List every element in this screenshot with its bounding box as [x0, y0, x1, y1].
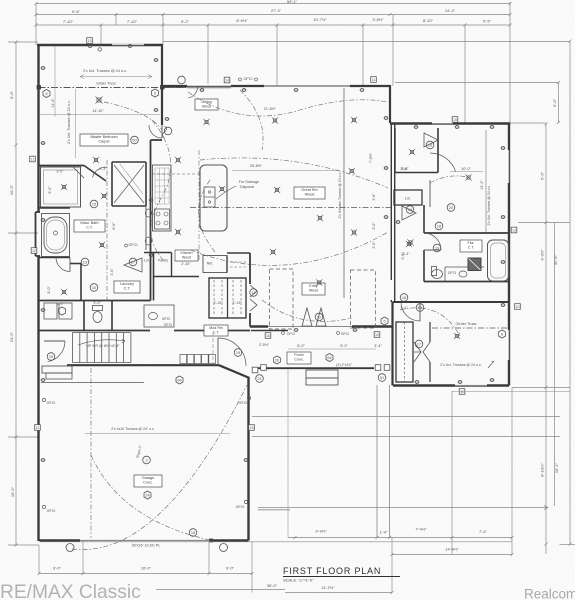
dimension row 3 top y=25 — [36, 24, 510, 26]
long extension line y=416.5 — [252, 416, 560, 418]
right dimension line x=554.5 (32'-6) — [554, 223, 556, 507]
svg-text:14'-10": 14'-10" — [92, 109, 104, 113]
svg-text:2'x Selador Trusses @ 24 o.c.: 2'x Selador Trusses @ 24 o.c. — [338, 172, 342, 219]
svg-text:15: 15 — [375, 333, 379, 337]
svg-text:Ref.: Ref. — [207, 262, 213, 266]
porch label box — [287, 352, 311, 364]
svg-text:GFCI: GFCI — [239, 401, 248, 405]
svg-text:2'-10": 2'-10" — [214, 301, 224, 305]
svg-text:7'-5½": 7'-5½" — [369, 152, 373, 163]
long extension line y=436.5 — [252, 436, 560, 438]
left dim tick extensions — [8, 41, 38, 43]
circle 20 bedroom3 — [416, 304, 424, 312]
garage corner diagonal wall — [219, 365, 250, 378]
svg-text:13: 13 — [83, 260, 87, 264]
svg-text:7'-10": 7'-10" — [63, 19, 74, 24]
window box 11 left wall upper — [30, 156, 36, 162]
svg-text:11: 11 — [252, 291, 256, 295]
dim 36-0 row y=589.5 — [156, 589, 285, 591]
svg-text:14'-8½": 14'-8½" — [445, 547, 459, 552]
svg-text:6: 6 — [45, 92, 47, 96]
mud room south wall (y=365.2) — [67, 364, 219, 366]
svg-text:GFCI: GFCI — [162, 317, 171, 321]
svg-text:2'x Ucl. Trusses @ 24 o.c.: 2'x Ucl. Trusses @ 24 o.c. — [67, 100, 71, 144]
circle 20 bedroom2 — [447, 204, 455, 212]
window box 11 bedroom3 south — [459, 389, 465, 395]
wall: bath2 west (x=424) — [423, 205, 425, 233]
girder hexagon left — [43, 90, 50, 98]
wiring arc great room big — [200, 158, 388, 188]
garage door opener circles — [66, 544, 74, 552]
svg-text:GFCI: GFCI — [236, 505, 245, 509]
garage bottom extension — [40, 541, 513, 543]
wall: dining/kitchen north (y=86) — [163, 85, 264, 87]
laundry partitions — [83, 301, 85, 331]
right dimension line x=546 — [545, 124, 547, 554]
bedroom3 bifold doors — [414, 342, 421, 362]
svg-text:Wood: Wood — [182, 256, 191, 260]
window box 15 garage east wall — [249, 425, 255, 431]
svg-text:2'x 4x10 Trusses @ 24" o.c.: 2'x 4x10 Trusses @ 24" o.c. — [111, 427, 154, 431]
wall: garage south (y=540.5) — [40, 539, 81, 541]
svg-text:14'-6": 14'-6" — [51, 98, 55, 108]
door: entry closet bifold — [250, 285, 257, 311]
svg-text:13: 13 — [512, 228, 516, 232]
hall closets pair — [209, 278, 246, 318]
svg-text:27'-3": 27'-3" — [271, 8, 282, 13]
svg-text:Porch: Porch — [294, 353, 303, 357]
circle 50 mb — [131, 136, 139, 144]
wiring arc great oval — [199, 180, 215, 252]
svg-text:64: 64 — [177, 379, 181, 383]
wall: left exterior (x=38.5) — [37, 44, 39, 212]
svg-text:6'-0": 6'-0" — [112, 222, 116, 230]
circle 19 bath2 — [433, 244, 441, 252]
svg-text:3'-0": 3'-0" — [47, 286, 51, 294]
svg-text:10'-0": 10'-0" — [461, 167, 471, 171]
svg-text:15: 15 — [250, 426, 254, 430]
svg-text:Wood: Wood — [305, 193, 315, 197]
wall: hall north (y=276.5) — [154, 276, 200, 278]
svg-text:17: 17 — [417, 342, 421, 346]
ref dashed — [230, 261, 248, 263]
dim 11-2 row y=592.5 — [285, 592, 392, 594]
bedroom2 closet light — [410, 150, 413, 153]
great room girder dashdot — [190, 207, 391, 209]
svg-text:9'-6": 9'-6" — [9, 90, 14, 99]
bedroom2 light — [467, 176, 470, 179]
door: linen wedge — [402, 206, 416, 220]
wall: toilet room east (x=81) — [80, 264, 82, 301]
svg-text:GFCI: GFCI — [47, 401, 56, 405]
svg-text:UP 9 R @ 8⅜"=6'-4": UP 9 R @ 8⅜"=6'-4" — [86, 344, 120, 348]
mud room label box — [204, 325, 228, 336]
svg-text:7'-4": 7'-4" — [479, 529, 488, 534]
bath2 vanity — [444, 267, 446, 282]
great room label box — [294, 187, 325, 199]
svg-text:6: 6 — [383, 320, 385, 324]
svg-text:GFCI: GFCI — [164, 323, 173, 327]
wall: master bedroom east (x=162) — [161, 44, 163, 125]
mb wall outlet top — [98, 48, 101, 51]
entry soffit dashed rect east — [351, 270, 376, 328]
svg-text:Girder Truss: Girder Truss — [456, 322, 477, 326]
recessed light symbols — [205, 120, 208, 123]
wiring arc bed2 — [430, 176, 470, 183]
wall: entry west (x=250) — [249, 253, 251, 284]
svg-text:24: 24 — [145, 494, 149, 498]
bath2 toilet — [432, 270, 443, 279]
door: laundry from hall wedge — [124, 258, 142, 272]
svg-text:19: 19 — [49, 355, 53, 359]
svg-text:61: 61 — [380, 376, 384, 380]
girder junction squares — [37, 86, 41, 90]
long extension line y=507.5 — [258, 507, 548, 509]
svg-text:2'x Ucl. Trusses @ 24 o.c.: 2'x Ucl. Trusses @ 24 o.c. — [440, 363, 482, 367]
bedroom2 closet door wedge — [424, 133, 438, 147]
wiring arc nook-kitchen — [240, 90, 263, 150]
wall: shower south (y=208) — [39, 207, 71, 209]
svg-text:3'-5½": 3'-5½" — [259, 343, 270, 347]
great room truss line — [343, 88, 345, 298]
wall: bedroom3 south exterior (y=385.5) — [393, 384, 509, 386]
dim row y=554.5 — [392, 554, 512, 556]
pantry walls — [153, 253, 155, 301]
svg-text:16'-1": 16'-1" — [554, 462, 559, 473]
svg-text:11: 11 — [31, 157, 35, 161]
wiring arc dining — [188, 92, 388, 116]
island sink — [204, 187, 215, 207]
svg-text:11'-2½": 11'-2½" — [321, 585, 335, 590]
bedroom2 closet — [394, 128, 396, 173]
master tub deck — [42, 214, 70, 257]
svg-text:For Garbage: For Garbage — [239, 180, 259, 184]
kitchen counter hatch — [155, 167, 169, 169]
svg-text:16: 16 — [408, 208, 412, 212]
svg-text:36'-0": 36'-0" — [267, 583, 278, 588]
svg-text:Entry: Entry — [309, 284, 318, 288]
svg-text:10'-7½": 10'-7½" — [313, 17, 327, 22]
garage header line — [41, 382, 144, 384]
wall: shower north / mb south (y=165.5) — [39, 165, 85, 167]
mast bath label box — [74, 220, 105, 232]
svg-text:3'-8½": 3'-8½" — [372, 17, 384, 22]
svg-text:9'-0": 9'-0" — [53, 566, 62, 571]
mb ceiling light — [97, 98, 101, 102]
svg-text:10'-3": 10'-3" — [9, 184, 14, 195]
svg-text:3'-6": 3'-6" — [110, 268, 114, 276]
svg-text:21'-8½": 21'-8½" — [264, 107, 277, 111]
bath2 light — [407, 242, 410, 245]
door stub + swing at dining opening — [163, 85, 187, 87]
svg-text:6: 6 — [501, 333, 503, 337]
bedroom3 closet — [396, 322, 413, 382]
window box 13 on top wall — [87, 38, 93, 44]
kitchen label box — [175, 250, 198, 261]
right dim tick extensions — [163, 41, 570, 43]
laundry label box — [114, 281, 140, 293]
svg-text:C.T.: C.T. — [468, 246, 475, 250]
wiring arc garage big — [72, 385, 247, 550]
mud sink counter — [144, 305, 174, 327]
mb door squiggle — [163, 126, 167, 138]
wall: bedroom3 west (x=392.5) — [391, 302, 393, 386]
circle 10 near laundry — [90, 284, 98, 292]
mb truss arrow line — [80, 76, 152, 78]
wall: east exterior (x=509) — [508, 124, 510, 386]
meter boxes porch — [375, 365, 381, 371]
svg-text:11: 11 — [36, 426, 40, 430]
svg-text:18: 18 — [191, 531, 195, 535]
door: hall to bedroom3 — [401, 303, 420, 321]
svg-text:3'-6": 3'-6" — [372, 193, 376, 201]
svg-text:Pantry: Pantry — [158, 259, 168, 263]
garage door line — [80, 540, 211, 542]
wiring arc kitchen S — [151, 120, 171, 262]
svg-text:GFCI: GFCI — [128, 243, 137, 247]
right dimension line x=558.5 (9'-0) — [558, 83, 560, 123]
wiring vertical garage center — [90, 368, 92, 538]
wall: master bedroom top exterior (y=45) — [37, 44, 163, 46]
svg-text:3'-6": 3'-6" — [400, 167, 408, 171]
svg-text:26: 26 — [275, 359, 279, 363]
window box 11 on nook wall — [371, 77, 377, 83]
svg-text:GFCI: GFCI — [47, 509, 56, 513]
svg-text:Wood: Wood — [202, 105, 211, 109]
svg-text:19'-2": 19'-2" — [10, 486, 15, 497]
door: bedroom2 entry arc — [430, 153, 456, 172]
svg-text:Lin.: Lin. — [405, 197, 411, 201]
svg-text:20: 20 — [449, 206, 453, 210]
svg-text:8'-10⅛": 8'-10⅛" — [540, 463, 545, 477]
svg-text:Mast. Bath: Mast. Bath — [80, 221, 98, 225]
mb label box — [80, 134, 128, 146]
top dim extension lines — [35, 4, 37, 46]
kitchen counter west — [153, 165, 172, 231]
wiring vertical mud — [212, 332, 214, 364]
wall: bath2 south (y=281.5) — [424, 281, 509, 283]
svg-text:Wood: Wood — [309, 289, 318, 293]
bedroom3 girder — [432, 327, 508, 329]
svg-text:Carpet: Carpet — [98, 140, 109, 144]
svg-text:16'-0": 16'-0" — [141, 566, 152, 571]
garage label box — [134, 475, 162, 487]
mud lockers — [180, 355, 187, 364]
wall: bath diagonal door wall — [84, 166, 106, 182]
wall: hall band south (y=330.5) — [39, 330, 151, 332]
svg-text:3'-6": 3'-6" — [372, 241, 376, 249]
circle 17 bedroom3 closet — [415, 340, 423, 348]
svg-text:2'x Ucl. Trusses @ 24 o.c.: 2'x Ucl. Trusses @ 24 o.c. — [83, 69, 127, 73]
svg-text:C.T.: C.T. — [86, 226, 93, 230]
svg-text:Conc.: Conc. — [143, 481, 153, 485]
wall: kitchen/entry connector (y=253) — [227, 252, 250, 254]
bedroom3 arrow — [488, 361, 494, 368]
svg-text:50: 50 — [132, 138, 136, 142]
svg-text:Flor.: Flor. — [468, 241, 475, 245]
svg-text:1'-4": 1'-4" — [380, 530, 389, 535]
svg-text:Conc.: Conc. — [294, 358, 303, 362]
window box 15 entry front — [374, 332, 380, 338]
svg-text:7'-10": 7'-10" — [127, 19, 138, 24]
svg-text:59'-1": 59'-1" — [287, 0, 298, 4]
window box 14 on dining wall — [224, 77, 230, 83]
wall: bedroom2 north (y=123.5) — [390, 122, 510, 124]
dining label box — [195, 99, 218, 110]
svg-text:2'-10": 2'-10" — [181, 262, 191, 266]
svg-text:9'-0": 9'-0" — [226, 566, 235, 571]
wall: tub south (y=257.5) — [39, 257, 71, 259]
hexagon 64 mud — [176, 376, 183, 384]
svg-text:10: 10 — [516, 305, 520, 309]
kitchen range — [155, 209, 170, 229]
wall: entry front (y=326.5) — [250, 325, 268, 327]
girder hexagon right — [152, 89, 159, 97]
wiring arc entry — [262, 300, 352, 321]
dimension row 2 top y=14.5 — [36, 14, 510, 16]
svg-text:12: 12 — [317, 315, 321, 319]
svg-text:Kitchen: Kitchen — [181, 251, 193, 255]
svg-text:18: 18 — [437, 224, 441, 228]
porch steps — [306, 370, 338, 378]
window box 12 left wall — [31, 248, 37, 254]
svg-text:15: 15 — [453, 118, 457, 122]
refrigerator — [203, 256, 227, 273]
stairs treads — [72, 333, 74, 363]
walk-in closet shelving diagonals — [114, 165, 144, 203]
wall outlets scattered — [41, 66, 44, 69]
wall: tub bump-out left — [35, 212, 37, 256]
svg-text:Girder Truss: Girder Truss — [96, 82, 116, 86]
svg-text:10: 10 — [428, 143, 432, 147]
door: stair hall from garage — [48, 341, 65, 362]
hexagon 6 entry — [381, 317, 388, 325]
bath2 tub — [488, 240, 509, 281]
door: toilet room — [56, 258, 70, 272]
svg-text:5'-0": 5'-0" — [340, 344, 348, 348]
svg-text:9'-2": 9'-2" — [181, 19, 190, 24]
svg-text:Great Rm: Great Rm — [301, 188, 317, 192]
wiring arc bath — [106, 160, 108, 300]
svg-text:9'-3½": 9'-3½" — [540, 249, 545, 261]
right verticals below house — [451, 391, 453, 555]
svg-text:Laundry: Laundry — [120, 282, 134, 286]
svg-text:3'-6": 3'-6" — [401, 252, 405, 260]
svg-text:Master Bedroom: Master Bedroom — [90, 135, 117, 139]
toilet room light — [62, 290, 65, 293]
svg-text:(2) 2"x10": (2) 2"x10" — [336, 363, 352, 367]
svg-text:32'-6": 32'-6" — [553, 254, 558, 265]
shower stall — [41, 167, 81, 207]
svg-text:14'-3": 14'-3" — [445, 8, 456, 13]
svg-text:8'-10": 8'-10" — [423, 18, 434, 23]
svg-text:3'-0": 3'-0" — [372, 222, 376, 230]
svg-text:3'-0": 3'-0" — [56, 302, 64, 306]
svg-text:5'-3": 5'-3" — [99, 167, 107, 171]
svg-text:3'-4": 3'-4" — [374, 344, 382, 348]
window box 11 garage west wall — [35, 425, 41, 431]
meter boxes garage east — [252, 367, 258, 373]
wiring arc garage inner — [91, 455, 210, 540]
svg-text:SCALE: ¼"=1'-0": SCALE: ¼"=1'-0" — [283, 578, 314, 583]
svg-text:18: 18 — [402, 296, 406, 300]
wall: nook east corner down (x=390) — [389, 85, 391, 123]
wall: garage east (x=248.5) — [247, 378, 249, 541]
svg-text:5'-0": 5'-0" — [297, 344, 305, 348]
svg-text:19: 19 — [236, 351, 240, 355]
wiring vertical hall — [198, 150, 200, 260]
wiring arc mb — [104, 102, 162, 130]
linen closet — [394, 190, 422, 205]
svg-text:GFCI: GFCI — [448, 271, 457, 275]
svg-text:Dining: Dining — [201, 100, 211, 104]
wall: hall west / great room east (x=391.5-394.7) — [390, 124, 392, 280]
bath2 shower dark — [468, 258, 481, 271]
powder toilet — [93, 312, 102, 323]
window box 16 porch wall — [265, 333, 271, 339]
svg-text:C.T.: C.T. — [124, 287, 131, 291]
svg-text:13: 13 — [88, 39, 92, 43]
wiring arc bed3 — [400, 308, 460, 336]
dim row porch y=537.5 — [288, 537, 512, 539]
svg-text:9'-0": 9'-0" — [552, 98, 557, 107]
window box on bedroom2 north wall — [452, 117, 458, 123]
stairs arrow curve — [78, 340, 125, 345]
wiring arc great room lower — [190, 232, 388, 265]
svg-text:19: 19 — [435, 246, 439, 250]
svg-text:C.T.: C.T. — [213, 331, 220, 335]
svg-text:6: 6 — [154, 92, 156, 96]
svg-text:36'x16' 16 EE PL: 36'x16' 16 EE PL — [132, 544, 161, 548]
svg-text:21: 21 — [257, 377, 261, 381]
svg-text:16: 16 — [266, 334, 270, 338]
svg-text:9'-6": 9'-6" — [72, 9, 81, 14]
porch dim verticals — [287, 369, 289, 538]
svg-text:3'-0": 3'-0" — [56, 170, 64, 174]
svg-text:3'-0": 3'-0" — [93, 301, 101, 305]
svg-text:FIRST FLOOR PLAN: FIRST FLOOR PLAN — [283, 566, 381, 576]
sidewalk lines — [376, 385, 378, 538]
svg-text:7'-4½": 7'-4½" — [415, 527, 427, 532]
svg-text:11: 11 — [460, 390, 464, 394]
svg-text:9'-9½": 9'-9½" — [315, 529, 327, 534]
svg-text:2: 2 — [145, 458, 147, 462]
svg-text:8'-9½": 8'-9½" — [236, 18, 248, 23]
bath2 label box — [460, 240, 482, 252]
svg-text:Garage: Garage — [142, 476, 154, 480]
svg-text:11: 11 — [372, 78, 376, 82]
window box 10 east wall — [515, 304, 521, 310]
svg-text:5'-0": 5'-0" — [540, 171, 545, 180]
circle 18 garage door — [189, 529, 197, 537]
wall: bedroom3 north (y=302) — [393, 301, 510, 303]
walk-in closet walls — [111, 162, 113, 206]
svg-text:64: 64 — [327, 356, 331, 360]
svg-text:Mud Rm: Mud Rm — [209, 326, 223, 330]
porch south wall (y=368.2) — [252, 367, 374, 369]
girder truss line — [39, 87, 187, 89]
svg-text:5'-5": 5'-5" — [483, 19, 492, 24]
kitchen island — [200, 165, 227, 231]
entry label box — [302, 283, 325, 295]
door: master bedroom entry — [149, 125, 162, 138]
svg-text:GFCI: GFCI — [287, 332, 295, 336]
svg-text:GFCI: GFCI — [341, 332, 349, 336]
garage dim row y=573.5 — [39, 573, 252, 575]
master tub — [44, 217, 67, 253]
door: mud to garage — [218, 338, 246, 366]
laundry machines — [44, 303, 57, 319]
